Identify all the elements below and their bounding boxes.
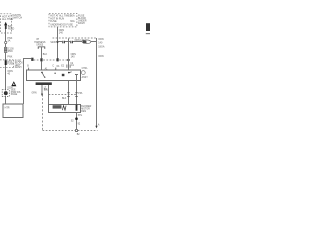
resistor box (bottom middle): [48, 104, 80, 112]
svg-text:18GA: 18GA: [98, 45, 105, 48]
wire W4 down to big box: [68, 38, 70, 70]
small oval on right edge of big box: [81, 71, 85, 75]
text rows inside top-middle dashed box: [50, 14, 75, 26]
svg-text:DASH: DASH: [15, 66, 22, 69]
in-line connector component on left wire: [4, 47, 7, 52]
svg-text:PNK: PNK: [8, 50, 13, 53]
svg-text:SP205: SP205: [36, 44, 44, 46]
dashed line D3 (lower connector row): [49, 94, 77, 96]
wire W6 down to resistor box: [48, 85, 50, 104]
connector circle at D4: [75, 129, 77, 131]
svg-text:BLK: BLK: [43, 54, 48, 56]
svg-text:ASSY: ASSY: [82, 76, 89, 79]
svg-text:60A: 60A: [70, 20, 75, 23]
junction dot on wire at branch: [56, 41, 58, 43]
V1 labels: [98, 38, 105, 58]
splice S200 (dark circle in dashed box): [2, 90, 9, 97]
wire labels: [59, 29, 65, 35]
label below D2 junction dot: [70, 63, 74, 65]
labels near D3: [44, 89, 83, 100]
dashed box: junction block detail (top middle): [49, 13, 77, 27]
connector symbols on D2: [31, 58, 59, 62]
fusible link pill: [82, 40, 91, 44]
connector ticks where wires cross D3: [67, 93, 78, 97]
label right of feed symbol: [8, 25, 15, 30]
big box: heater control assembly: [27, 70, 81, 81]
pin labels above big box: [27, 65, 74, 68]
text under triangle: [11, 88, 21, 96]
svg-text:HTR: HTR: [5, 106, 10, 109]
branch wire to right: [58, 41, 97, 43]
fuse labels inside band: [7, 60, 14, 65]
wire: left main vertical: [5, 29, 7, 104]
wire label: [7, 37, 12, 42]
battery feed arrow symbol: [4, 22, 7, 29]
page legend block (top right edge): [146, 23, 150, 31]
wire W8 lower segment: [76, 112, 78, 129]
label inside bottom-left box: [5, 106, 10, 109]
wire W5 with arrow end: [41, 85, 43, 94]
svg-text:FUSE: FUSE: [7, 63, 14, 66]
svg-text:PPL: PPL: [78, 93, 83, 95]
wire W7 down from big box: [68, 81, 70, 105]
dark label smudge inside resistor box: [53, 105, 62, 108]
svg-text:140: 140: [59, 32, 64, 35]
dashed boundary vertical (left of resistor box): [42, 95, 44, 131]
component box: blower switch (bottom left): [3, 104, 23, 118]
resistor zigzag inside box: [62, 106, 66, 111]
svg-text:PPL: PPL: [78, 115, 83, 117]
connector ticks on W4 above box: [67, 65, 70, 68]
dashed band: fuse block: [0, 60, 13, 68]
wire W8 down from big box: [76, 81, 78, 105]
W3 entry label: [45, 67, 49, 70]
long vertical wire V1 (right): [96, 38, 98, 126]
svg-text:140: 140: [71, 56, 76, 59]
dashed box: ignition switch (top left): [1, 14, 12, 33]
svg-text:PAGE: PAGE: [11, 93, 18, 96]
splice-pack staple symbol: [38, 47, 45, 49]
warning triangle 1: [11, 81, 16, 86]
splice dot on W8: [75, 117, 78, 120]
labels right of resistor box: [81, 106, 91, 113]
svg-text:RES: RES: [81, 111, 86, 113]
pin ticks on top edge: [29, 68, 56, 70]
svg-text:30A: 30A: [70, 14, 75, 17]
switch symbol 1 inside big box: [41, 72, 45, 78]
label text right of ignition box: [12, 14, 22, 20]
svg-text:DASH: DASH: [78, 22, 85, 25]
arrow end of V1: [95, 126, 97, 129]
dashed line D1 (upper boundary): [53, 37, 97, 39]
text right of top-middle box: [78, 14, 87, 25]
text above staple: [34, 39, 46, 46]
in-line connector halves on branch: [62, 41, 73, 44]
W8 labels: [71, 115, 83, 136]
svg-text:S204: S204: [7, 87, 13, 89]
svg-text:S206: S206: [50, 42, 56, 44]
wire label: [7, 55, 12, 58]
svg-text:140: 140: [98, 42, 103, 45]
fuse F1 (dark bar): [5, 60, 7, 65]
dark connector band under big box: [36, 82, 52, 85]
branch wire label: [75, 40, 85, 42]
switch symbol 2 inside big box: [68, 72, 78, 81]
svg-text:ORN: ORN: [98, 38, 104, 41]
wire from top-middle box down: [57, 27, 59, 60]
dark contact marks inside big box: [55, 73, 65, 77]
resistor element dark bar: [76, 105, 78, 111]
svg-text:CTRL: CTRL: [82, 68, 89, 70]
dashed line D4 (bottom boundary): [43, 130, 98, 132]
svg-text:ORN: ORN: [98, 55, 104, 58]
label left of branch junction: [50, 42, 56, 44]
svg-text:GRN: GRN: [31, 93, 36, 95]
wire W3 from staple to big box: [41, 47, 43, 70]
fuse block label right: [15, 59, 24, 69]
wire label below fuse: [7, 70, 13, 75]
junction dot at D2 right end: [67, 59, 69, 61]
label text inside ignition box: [2, 16, 13, 22]
svg-text:BLK: BLK: [62, 98, 67, 100]
text above splice: [7, 87, 13, 89]
corner wire W2 (left long drop): [24, 59, 32, 104]
svg-text:FEED: FEED: [8, 28, 15, 31]
svg-text:3A: 3A: [7, 40, 10, 43]
svg-text:UNDERHOOD FUSE: UNDERHOOD FUSE: [50, 24, 73, 27]
svg-text:HARNESS: HARNESS: [34, 41, 46, 44]
dashed line D2 (connector row): [34, 59, 69, 61]
W4 labels: [71, 53, 77, 59]
W5 label: [31, 87, 48, 94]
connector circle on left wire: [5, 41, 7, 43]
W3 label: [43, 54, 48, 56]
svg-text:PNK: PNK: [7, 55, 12, 58]
label right of big box: [82, 68, 89, 79]
label right of connector: [8, 47, 14, 52]
svg-text:SWITCH: SWITCH: [12, 17, 22, 20]
